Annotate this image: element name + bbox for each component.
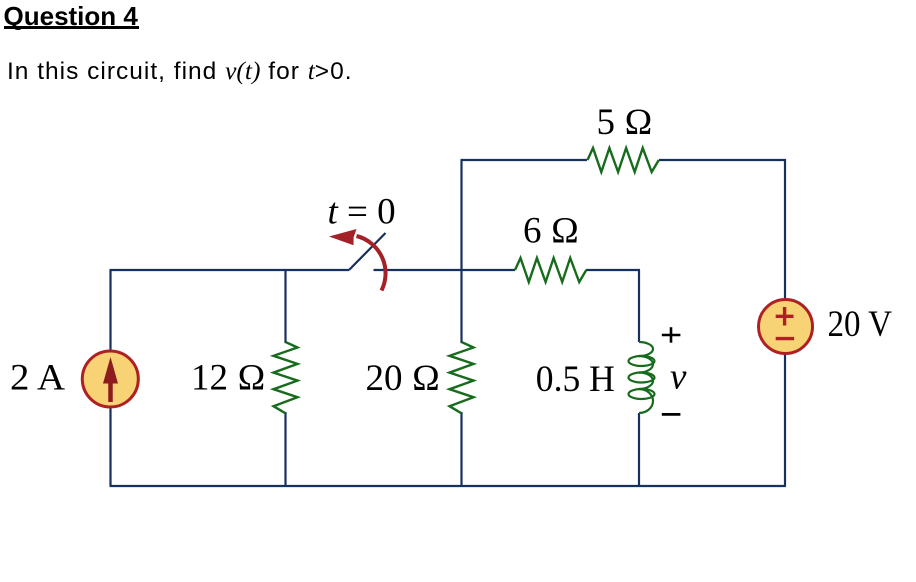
- wire left vertical: [109, 270, 111, 486]
- resistor R 6ohm zigzag: [515, 258, 586, 282]
- inductor L 0.5H coil: [629, 342, 655, 413]
- resistor R 20ohm zigzag: [450, 342, 474, 413]
- svg-text:t = 0: t = 0: [328, 192, 396, 233]
- wire middle horizontal left of switch: [110, 269, 350, 271]
- wire 20ohm branch bottom: [460, 412, 462, 486]
- svg-text:2 A: 2 A: [10, 358, 65, 399]
- wire 12ohm branch bottom: [284, 412, 286, 486]
- svg-text:v: v: [670, 357, 687, 398]
- svg-text:12 Ω: 12 Ω: [191, 358, 266, 399]
- switch arc arrow: [329, 229, 386, 291]
- voltage source 20V: [759, 300, 813, 354]
- svg-text:20 Ω: 20 Ω: [366, 358, 441, 399]
- label minus sign of v: [662, 413, 681, 416]
- wire middle horizontal 6ohm to inductor corner: [586, 269, 640, 271]
- wire middle horizontal right of switch: [374, 269, 516, 271]
- wire 12ohm branch top: [284, 270, 286, 343]
- svg-text:6 Ω: 6 Ω: [523, 211, 579, 252]
- wire bottom horizontal: [110, 485, 787, 487]
- wire top rail left of 5ohm: [461, 159, 588, 161]
- wire top rail right of 5ohm: [659, 159, 786, 161]
- wire right vertical above 20V source: [784, 159, 786, 299]
- wire right vertical below 20V source: [784, 354, 786, 486]
- wire 20ohm branch top: [460, 270, 462, 343]
- svg-text:0.5 H: 0.5 H: [536, 359, 615, 400]
- resistor R 12ohm zigzag: [274, 342, 298, 413]
- switch blade: [349, 233, 386, 270]
- resistor R 5ohm zigzag: [588, 148, 659, 172]
- wire inductor branch bottom: [638, 413, 640, 486]
- svg-text:5 Ω: 5 Ω: [597, 102, 653, 143]
- wire inductor branch top: [638, 270, 640, 342]
- label plus sign of v: [662, 327, 681, 343]
- wire up branch to top rail: [460, 160, 462, 270]
- svg-text:20 V: 20 V: [828, 304, 893, 345]
- current source 2A: [82, 351, 138, 407]
